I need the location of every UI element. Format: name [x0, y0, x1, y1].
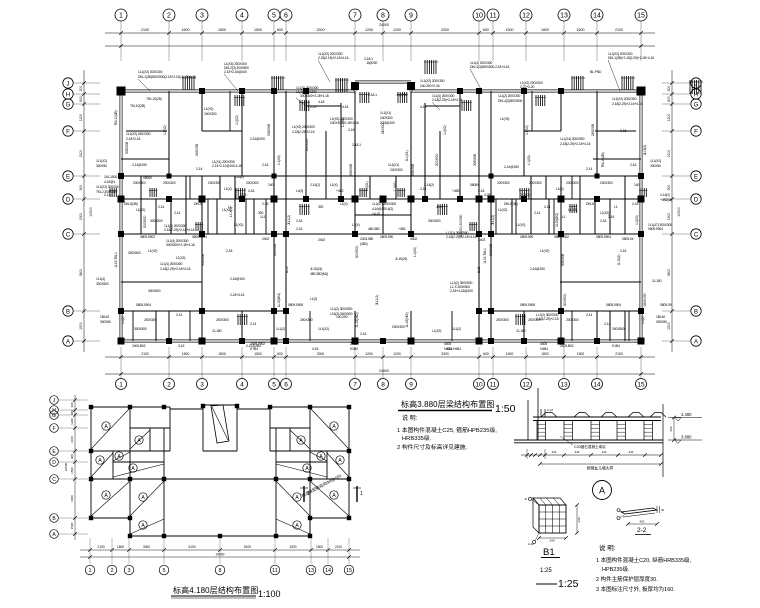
- svg-text:9: 9: [409, 381, 413, 388]
- svg-text:240-300+2-16: 240-300+2-16: [420, 84, 440, 88]
- svg-text:200X300: 200X300: [529, 181, 542, 185]
- svg-text:2-16: 2-16: [296, 227, 302, 231]
- svg-text:L1(X2): L1(X2): [516, 223, 525, 227]
- svg-text:L1(X): L1(X): [224, 187, 232, 191]
- svg-text:7: 7: [353, 381, 357, 388]
- svg-text:5100: 5100: [244, 545, 251, 549]
- svg-text:E: E: [66, 174, 70, 180]
- svg-text:300X500: 300X500: [305, 138, 309, 151]
- svg-text:F: F: [66, 129, 70, 135]
- svg-text:2-14: 2-14: [544, 205, 550, 209]
- svg-text:2-16: 2-16: [632, 202, 638, 206]
- svg-text:L1(X2): L1(X2): [525, 125, 529, 134]
- svg-text:11-150: 11-150: [212, 329, 222, 333]
- svg-text:11: 11: [489, 13, 496, 20]
- svg-text:2-10: 2-10: [528, 542, 534, 546]
- svg-text:10: 10: [475, 381, 483, 388]
- svg-text:5: 5: [162, 568, 165, 574]
- parapet detail brick posts: [537, 421, 653, 441]
- svg-text:2402: 2402: [318, 238, 325, 242]
- svg-text:1800: 1800: [218, 352, 226, 356]
- svg-text:2-14: 2-14: [604, 322, 610, 326]
- svg-text:1500: 1500: [79, 213, 83, 221]
- svg-text:2100: 2100: [141, 28, 149, 32]
- svg-text:300X500: 300X500: [428, 219, 441, 223]
- svg-text:2409-0902: 2409-0902: [250, 342, 265, 346]
- svg-text:2-18@100: 2-18@100: [380, 121, 395, 125]
- svg-text:2-18(2-25)+2-18+4-16: 2-18(2-25)+2-18+4-16: [164, 228, 195, 232]
- svg-text:1 本图构件混凝土C20, 纵筋HRB335级,: 1 本图构件混凝土C20, 纵筋HRB335级,: [596, 556, 692, 564]
- svg-text:-8: -8: [524, 497, 527, 501]
- column detail B1 label: [540, 547, 560, 574]
- svg-text:L1(X1): L1(X1): [341, 117, 345, 126]
- svg-text:1L1(X1): 1L1(X1): [388, 163, 399, 167]
- svg-text:1500: 1500: [506, 352, 514, 356]
- svg-text:L1(X3): L1(X3): [277, 155, 281, 164]
- svg-text:161-1500: 161-1500: [104, 175, 117, 179]
- svg-text:2-16: 2-16: [262, 163, 268, 167]
- svg-text:1: 1: [119, 381, 123, 388]
- svg-text:300X500: 300X500: [143, 215, 147, 228]
- svg-text:HPB235级.: HPB235级.: [602, 565, 630, 573]
- main plan columns: [117, 82, 646, 345]
- svg-text:12: 12: [522, 381, 530, 388]
- svg-text:2-14: 2-14: [420, 187, 426, 191]
- svg-text:1L1(X2) 300X50: 1L1(X2) 300X50: [96, 185, 119, 189]
- svg-text:1200: 1200: [365, 352, 373, 356]
- svg-text:JLL1(1): JLL1(1): [491, 215, 495, 225]
- svg-text:F: F: [52, 426, 55, 432]
- svg-text:140: 140: [634, 183, 639, 187]
- svg-text:L1(X2): L1(X2): [163, 125, 167, 134]
- svg-text:2-14: 2-14: [250, 322, 256, 326]
- svg-text:900: 900: [667, 185, 671, 191]
- svg-text:B: B: [694, 309, 698, 315]
- svg-text:2403-080: 2403-080: [360, 237, 373, 241]
- svg-text:1500: 1500: [506, 28, 514, 32]
- svg-text:300X500: 300X500: [411, 164, 415, 176]
- svg-text:9: 9: [409, 13, 413, 20]
- svg-text:4-18: 4-18: [318, 100, 324, 104]
- svg-text:240: 240: [552, 450, 557, 454]
- svg-text:C: C: [66, 232, 71, 238]
- svg-text:2-14: 2-14: [534, 211, 540, 215]
- svg-text:1L15: 1L15: [477, 266, 481, 273]
- svg-text:300X500: 300X500: [128, 251, 141, 255]
- svg-text:H4B4: H4B4: [444, 347, 452, 351]
- svg-text:1L1(X2): 1L1(X2): [96, 159, 107, 163]
- svg-text:6: 6: [284, 13, 288, 20]
- svg-text:8: 8: [381, 381, 385, 388]
- svg-text:0809-0902: 0809-0902: [140, 235, 155, 239]
- main plan top axis grid lines: [121, 21, 641, 378]
- svg-text:1500: 1500: [254, 28, 262, 32]
- svg-text:3: 3: [200, 13, 204, 20]
- svg-text:300X500: 300X500: [148, 289, 161, 293]
- svg-text:1200: 1200: [365, 28, 373, 32]
- svg-text:+4B2: +4B2: [336, 189, 344, 193]
- svg-text:JLL1: JLL1: [436, 205, 443, 209]
- svg-text:11-150: 11-150: [652, 279, 662, 283]
- svg-text:L1(X3): L1(X3): [413, 247, 417, 256]
- svg-text:3: 3: [127, 568, 130, 574]
- svg-text:2-18: 2-18: [620, 249, 626, 253]
- parapet detail coping beam: [533, 417, 661, 421]
- svg-text:1L1(X1): 1L1(X1): [380, 111, 391, 115]
- svg-text:2100: 2100: [667, 150, 671, 158]
- svg-text:3300: 3300: [317, 352, 325, 356]
- svg-text:200X300: 200X300: [300, 318, 313, 322]
- svg-text:2402: 2402: [350, 342, 357, 346]
- svg-text:300: 300: [70, 402, 74, 407]
- svg-text:2-14@150: 2-14@150: [504, 165, 519, 169]
- svg-text:标高3.880层梁结构布置图: 标高3.880层梁结构布置图: [401, 399, 494, 409]
- svg-text:L1(X2): L1(X2): [204, 107, 213, 111]
- detail scale 1:25: [536, 578, 579, 590]
- svg-text:1800: 1800: [541, 28, 549, 32]
- svg-text:1L15-TKL1: 1L15-TKL1: [483, 248, 487, 264]
- svg-text:2-18+4-16@100: 2-18+4-16@100: [450, 289, 473, 293]
- svg-text:B: B: [66, 309, 70, 315]
- parapet detail wall left: [528, 388, 538, 440]
- svg-text:1L1(X2) 240X300: 1L1(X2) 240X300: [126, 132, 151, 136]
- svg-text:3.880: 3.880: [681, 435, 692, 440]
- slab plan title: [171, 585, 281, 599]
- main plan top dimension line: [105, 23, 655, 48]
- svg-text:JL-15(3K2): JL-15(3K2): [355, 313, 359, 328]
- svg-text:JL15(3): JL15(3): [643, 145, 647, 155]
- main plan bottom axis circles: [116, 379, 647, 390]
- svg-text:2-16: 2-16: [348, 128, 354, 132]
- svg-text:TKL10(2B): TKL10(2B): [114, 110, 118, 125]
- svg-text:2: 2: [167, 13, 171, 20]
- svg-text:+4B2: +4B2: [452, 189, 460, 193]
- main plan interior beams vertical: [141, 91, 625, 341]
- svg-text:L1(X): L1(X): [352, 223, 360, 227]
- svg-text:240X300: 240X300: [390, 168, 403, 172]
- svg-text:2-14: 2-14: [158, 205, 164, 209]
- beam plan notes: [397, 414, 497, 451]
- svg-text:5: 5: [272, 13, 276, 20]
- svg-text:G: G: [52, 413, 56, 419]
- svg-text:2-14+2-12@100-4-16: 2-14+2-12@100-4-16: [212, 164, 242, 168]
- svg-text:600: 600: [483, 28, 489, 32]
- svg-text:2-22+2-20: 2-22+2-20: [520, 85, 534, 89]
- svg-text:13: 13: [560, 13, 568, 20]
- svg-text:1L1(4): 1L1(4): [96, 277, 105, 281]
- svg-text:2-14(2): 2-14(2): [424, 183, 434, 187]
- svg-text:2-18(2-25)+2-16: 2-18(2-25)+2-16: [292, 130, 315, 134]
- svg-text:1500: 1500: [182, 28, 190, 32]
- svg-text:300X500: 300X500: [435, 153, 439, 166]
- svg-text:8: 8: [381, 13, 385, 20]
- svg-text:2-16: 2-16: [608, 215, 614, 219]
- svg-text:L1(X2): L1(X2): [443, 125, 447, 134]
- svg-text:K2B4: K2B4: [350, 347, 358, 351]
- svg-text:900: 900: [70, 454, 74, 459]
- svg-text:2 构件主筋保护层厚度30.: 2 构件主筋保护层厚度30.: [596, 575, 658, 583]
- svg-text:240X300: 240X300: [204, 112, 217, 116]
- svg-text:1500: 1500: [577, 28, 585, 32]
- svg-text:1L1(2): 1L1(2): [276, 327, 285, 331]
- svg-text:600: 600: [79, 96, 83, 102]
- svg-text:3300: 3300: [441, 28, 449, 32]
- svg-text:TKL10(2B): TKL10(2B): [601, 152, 605, 167]
- svg-text:200X300: 200X300: [496, 318, 509, 322]
- main plan leader lines: [138, 60, 620, 110]
- svg-text:2-16: 2-16: [630, 163, 636, 167]
- svg-text:HRB335级.: HRB335级.: [402, 434, 432, 442]
- svg-text:0809-0904: 0809-0904: [596, 235, 611, 239]
- svg-text:2-18@100: 2-18@100: [230, 277, 245, 281]
- svg-text:300X500+2-18+4-16: 300X500+2-18+4-16: [166, 243, 195, 247]
- svg-text:1200: 1200: [79, 114, 83, 122]
- svg-text:2-16: 2-16: [360, 332, 366, 336]
- svg-text:3300: 3300: [289, 545, 296, 549]
- svg-text:BL.PND: BL.PND: [590, 70, 602, 74]
- svg-text:1:25: 1:25: [558, 578, 579, 590]
- svg-text:3 本图标注尺寸外, 板厚均为160.: 3 本图标注尺寸外, 板厚均为160.: [596, 585, 675, 593]
- main plan top axis circles: [115, 9, 647, 21]
- svg-text:24000: 24000: [379, 369, 389, 373]
- svg-text:600: 600: [70, 410, 74, 415]
- svg-text:H: H: [66, 92, 70, 98]
- svg-text:2-14@150: 2-14@150: [132, 163, 147, 167]
- slab plan diagonals and A marks: [91, 408, 349, 534]
- svg-text:1L1(X2): 1L1(X2): [318, 327, 329, 331]
- svg-text:K1B4: K1B4: [612, 344, 620, 348]
- svg-text:2-2: 2-2: [637, 527, 647, 534]
- slab plan walls: [91, 405, 349, 536]
- svg-text:1500: 1500: [254, 352, 262, 356]
- svg-text:2-18(2-25)+2-18+4-16: 2-18(2-25)+2-18+4-16: [432, 98, 463, 102]
- main plan bottom dimension lines: [105, 352, 655, 376]
- svg-text:JLL1(1): JLL1(1): [375, 295, 379, 305]
- svg-text:200X300: 200X300: [144, 318, 157, 322]
- svg-text:C: C: [694, 232, 699, 238]
- svg-text:14: 14: [593, 381, 601, 388]
- svg-text:200X300: 200X300: [497, 181, 510, 185]
- svg-text:2-18: 2-18: [226, 249, 232, 253]
- svg-text:1L15(2K2): 1L15(2K2): [555, 213, 559, 227]
- svg-text:3: 3: [200, 381, 204, 388]
- svg-text:1500: 1500: [70, 467, 74, 474]
- svg-text:4403: 4403: [478, 238, 485, 242]
- svg-text:C: C: [52, 477, 56, 483]
- svg-text:1L1(2): 1L1(2): [452, 327, 461, 331]
- svg-text:DKL8: DKL8: [586, 202, 594, 206]
- svg-text:240: 240: [549, 539, 554, 543]
- svg-text:1200: 1200: [393, 28, 401, 32]
- svg-text:2 构件尺寸及标高详见建施.: 2 构件尺寸及标高详见建施.: [397, 443, 468, 451]
- svg-text:4-16@1: 4-16@1: [104, 180, 115, 184]
- svg-text:300X500: 300X500: [201, 254, 205, 266]
- svg-text:1500: 1500: [79, 322, 83, 330]
- svg-text:JLL1(1): JLL1(1): [287, 215, 291, 225]
- svg-text:240: 240: [602, 450, 607, 454]
- svg-text:1L1(X2) 200X300: 1L1(X2) 200X300: [138, 70, 163, 74]
- svg-text:300X500: 300X500: [134, 327, 147, 331]
- svg-text:140: 140: [268, 183, 273, 187]
- svg-text:600: 600: [277, 352, 283, 356]
- svg-text:2-10: 2-10: [547, 408, 553, 412]
- slab plan section marks 1-1: [300, 486, 363, 502]
- svg-text:300X50: 300X50: [656, 320, 667, 324]
- slab plan stair flight: [211, 405, 229, 443]
- svg-text:A: A: [694, 339, 698, 345]
- svg-text:+4B2: +4B2: [398, 227, 406, 231]
- svg-text:15: 15: [346, 568, 352, 574]
- svg-text:200X300: 200X300: [216, 318, 229, 322]
- svg-text:2100: 2100: [141, 352, 149, 356]
- svg-text:1:50: 1:50: [495, 403, 516, 415]
- svg-text:DKL8(3B): DKL8(3B): [124, 202, 138, 206]
- svg-text:1500: 1500: [667, 322, 671, 330]
- svg-text:L1: L1: [228, 205, 232, 209]
- section detail 2-2 label: [635, 527, 651, 535]
- svg-text:10: 10: [475, 13, 483, 20]
- svg-text:12: 12: [522, 13, 530, 20]
- svg-text:2-25(2-18)+2-18+4-16: 2-25(2-18)+2-18+4-16: [318, 56, 349, 60]
- svg-text:200X300: 200X300: [133, 181, 146, 185]
- svg-text:4-15: 4-15: [312, 347, 318, 351]
- svg-text:30: 30: [661, 508, 665, 512]
- svg-text:1: 1: [88, 568, 91, 574]
- svg-text:1:25: 1:25: [540, 568, 552, 574]
- svg-text:14: 14: [593, 13, 601, 20]
- svg-text:300X50: 300X50: [100, 320, 111, 324]
- svg-text:2809-090: 2809-090: [380, 235, 393, 239]
- slab plan bottom axis circles: [85, 565, 354, 575]
- svg-text:1B140: 1B140: [100, 315, 109, 319]
- svg-text:2-16@150: 2-16@150: [530, 267, 545, 271]
- svg-text:1L1(X4) 300X550: 1L1(X4) 300X550: [560, 137, 585, 141]
- svg-text:4-18: 4-18: [420, 105, 426, 109]
- svg-text:1: 1: [119, 13, 123, 20]
- svg-text:1200: 1200: [70, 418, 74, 425]
- svg-text:H4B4: H4B4: [540, 347, 548, 351]
- svg-text:4: 4: [240, 13, 244, 20]
- svg-text:6: 6: [284, 381, 288, 388]
- svg-text:300X500: 300X500: [563, 293, 567, 306]
- svg-text:1L1: 1L1: [560, 215, 565, 219]
- svg-text:15: 15: [637, 381, 645, 388]
- slab plan columns: [89, 404, 351, 538]
- svg-text:2-18: 2-18: [248, 189, 254, 193]
- main plan rotated annotation texts: [114, 110, 647, 307]
- svg-text:4-25: 4-25: [484, 193, 490, 197]
- beam plan title: [398, 399, 516, 415]
- svg-text:L1(X2): L1(X2): [540, 249, 549, 253]
- svg-text:1L1(X2) 200X300: 1L1(X2) 200X300: [612, 97, 637, 101]
- svg-text:2100: 2100: [97, 545, 104, 549]
- svg-text:4-18: 4-18: [342, 105, 348, 109]
- svg-text:0809-0908: 0809-0908: [520, 303, 535, 307]
- svg-text:4405: 4405: [444, 342, 451, 346]
- svg-text:240X300: 240X300: [380, 116, 393, 120]
- svg-text:2402: 2402: [262, 237, 269, 241]
- svg-text:L1(X2): L1(X2): [176, 256, 185, 260]
- svg-text:240X300: 240X300: [489, 244, 493, 256]
- svg-text:1200: 1200: [667, 114, 671, 122]
- svg-text:300X50: 300X50: [96, 164, 107, 168]
- svg-text:1L15(2): 1L15(2): [617, 255, 621, 266]
- svg-text:L1(X3): L1(X3): [527, 155, 531, 164]
- svg-text:L1(X3): L1(X3): [635, 215, 639, 224]
- svg-text:1: 1: [360, 491, 363, 497]
- svg-text:1500: 1500: [182, 352, 190, 356]
- svg-text:3600: 3600: [667, 269, 671, 277]
- svg-text:2100: 2100: [335, 545, 342, 549]
- svg-text:600: 600: [669, 426, 673, 431]
- svg-text:600: 600: [667, 96, 671, 102]
- svg-text:2-14: 2-14: [196, 167, 202, 171]
- svg-text:480-3B2: 480-3B2: [368, 227, 380, 231]
- svg-text:600: 600: [277, 28, 283, 32]
- svg-text:2100: 2100: [615, 352, 623, 356]
- svg-text:2-18-1: 2-18-1: [352, 143, 361, 147]
- svg-text:480-3B2(M1): 480-3B2(M1): [310, 272, 328, 276]
- svg-text:砖砌女儿墙大样: 砖砌女儿墙大样: [587, 466, 614, 471]
- svg-text:2100: 2100: [79, 150, 83, 158]
- svg-text:G: G: [694, 102, 699, 108]
- svg-text:D: D: [52, 460, 56, 466]
- svg-text:300X50: 300X50: [650, 164, 661, 168]
- main plan final tick clusters: [109, 188, 647, 231]
- svg-text:4-16@100-4(2): 4-16@100-4(2): [372, 207, 393, 211]
- svg-text:1B140: 1B140: [656, 315, 665, 319]
- svg-text:1L1(X1): 1L1(X1): [405, 150, 409, 161]
- svg-text:L4(3): L4(3): [296, 189, 303, 193]
- parapet elevation marker 3.880: [668, 435, 702, 444]
- svg-text:DKL1(3B)300X500(2-18+2-16)-2-1: DKL1(3B)300X500(2-18+2-16)-2-18+4-16: [138, 75, 196, 79]
- svg-text:11-150: 11-150: [516, 329, 526, 333]
- main plan rebar leader tick clusters: [182, 60, 703, 94]
- svg-text:2-18-1: 2-18-1: [368, 93, 377, 97]
- svg-text:F: F: [694, 129, 698, 135]
- svg-text:5: 5: [272, 381, 276, 388]
- svg-text:900: 900: [79, 185, 83, 191]
- svg-text:300X500: 300X500: [349, 164, 353, 176]
- svg-text:2-14: 2-14: [176, 313, 182, 317]
- svg-text:3300: 3300: [317, 28, 325, 32]
- svg-text:1L1(X2): 1L1(X2): [650, 159, 661, 163]
- svg-text:C20细石混凝土填实: C20细石混凝土填实: [574, 444, 606, 449]
- svg-text:J: J: [67, 81, 70, 87]
- svg-text:L1(X2): L1(X2): [136, 208, 145, 212]
- svg-text:1L15-TKL1: 1L15-TKL1: [114, 252, 118, 268]
- svg-text:10500: 10500: [64, 462, 68, 471]
- main plan extra annotation texts: [96, 79, 672, 351]
- svg-text:240X300: 240X300: [591, 124, 595, 136]
- svg-text:300: 300: [318, 205, 323, 209]
- svg-text:2-14: 2-14: [586, 313, 592, 317]
- svg-text:4: 4: [240, 381, 244, 388]
- svg-text:200X300: 200X300: [208, 181, 221, 185]
- svg-text:3600: 3600: [79, 269, 83, 277]
- main plan extra band dividers: [121, 91, 641, 341]
- svg-text:4-25: 4-25: [240, 193, 246, 197]
- svg-text:L1(X2): L1(X2): [498, 208, 507, 212]
- svg-text:0809-0904: 0809-0904: [192, 235, 207, 239]
- svg-text:L1(X2): L1(X2): [234, 223, 243, 227]
- svg-text:L1(2): L1(2): [641, 316, 645, 323]
- svg-text:0805-0904: 0805-0904: [136, 303, 151, 307]
- svg-text:1200: 1200: [393, 352, 401, 356]
- svg-text:15: 15: [637, 13, 645, 20]
- svg-text:1L1: 1L1: [260, 215, 265, 219]
- svg-text:L1(X1): L1(X1): [393, 181, 397, 190]
